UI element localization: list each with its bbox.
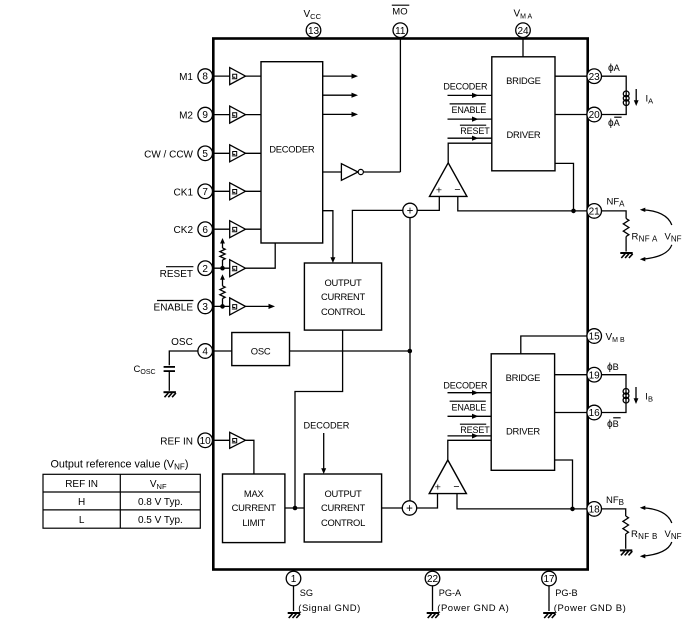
label REF IN <box>160 436 193 447</box>
wire pin 24 to bridge A <box>522 39 524 57</box>
resistor RNFA <box>602 211 629 252</box>
label VMB <box>606 332 625 344</box>
svg-text:11: 11 <box>395 26 406 37</box>
pin 15 VMB <box>587 329 602 344</box>
wire RESET buffer to decoder <box>246 243 276 268</box>
svg-text:15: 15 <box>589 332 601 343</box>
svg-text:22: 22 <box>427 574 439 585</box>
svg-text:ɸA: ɸA <box>608 118 621 129</box>
svg-text:+: + <box>435 482 441 494</box>
svg-text:VNF: VNF <box>150 479 167 491</box>
label NFB <box>606 495 624 507</box>
svg-text:−: − <box>454 184 460 196</box>
label RESET-bar bridge A <box>460 125 490 136</box>
wire OCC B to summing node B <box>382 507 402 509</box>
svg-text:OUTPUT: OUTPUT <box>324 488 362 499</box>
wire pin 1 to ground <box>293 570 295 612</box>
wire enable arrow bridge B <box>448 414 492 419</box>
pin 20 phiA-bar <box>587 107 602 122</box>
wire CK1 input <box>213 190 262 192</box>
schmitt buffer REF IN <box>230 432 246 448</box>
VNF arc A <box>640 208 672 262</box>
pin 22 PG-A <box>425 571 440 586</box>
schmitt buffer CK1 <box>230 183 246 200</box>
motor coil A <box>602 76 630 114</box>
svg-text:(Signal GND): (Signal GND) <box>298 603 361 614</box>
wire REF IN input <box>213 439 230 441</box>
wire summing A to comparator plus <box>417 196 439 210</box>
svg-text:VCC: VCC <box>304 9 322 21</box>
svg-text:ɸA: ɸA <box>608 63 621 74</box>
svg-text:MO: MO <box>392 7 407 18</box>
wire pin 21 stub <box>587 210 602 212</box>
svg-text:4: 4 <box>202 347 208 358</box>
wire OCC A to MCL node <box>295 330 343 508</box>
svg-text:+: + <box>407 205 414 217</box>
svg-text:CURRENT: CURRENT <box>321 291 366 302</box>
pull-up resistor on RESET <box>220 238 225 268</box>
pin 24 VMA <box>516 23 531 38</box>
pin 3 ENABLE-bar <box>198 299 213 314</box>
schmitt buffer ENABLE <box>230 298 246 315</box>
label VNF A <box>665 232 682 244</box>
wire comparator A to bridge A <box>448 143 492 163</box>
label RNFA <box>632 232 659 244</box>
svg-text:5: 5 <box>202 149 208 160</box>
label phiA-bar <box>608 117 622 129</box>
svg-text:RESET: RESET <box>460 425 490 435</box>
pin 13 VCC <box>306 23 321 38</box>
motor coil B <box>602 375 629 413</box>
label SG <box>300 588 313 598</box>
wire comparator B to bridge B <box>448 440 491 460</box>
svg-text:IA: IA <box>646 94 654 106</box>
comparator B <box>429 460 466 494</box>
svg-text:L: L <box>79 515 85 526</box>
wire enable arrow bridge A <box>448 117 492 122</box>
svg-text:PG-A: PG-A <box>439 588 462 598</box>
wire decoder to inverter <box>323 171 342 173</box>
svg-text:NFA: NFA <box>607 197 626 209</box>
svg-text:RESET: RESET <box>460 126 490 136</box>
label OSC pin <box>171 337 193 348</box>
pin 2 RESET-bar <box>198 261 213 276</box>
label phiA <box>608 63 621 74</box>
svg-text:NFB: NFB <box>606 495 624 507</box>
schmitt buffer M1 <box>230 68 246 85</box>
label VNF B <box>665 529 682 541</box>
label DECODER to bridge A <box>443 82 488 92</box>
svg-text:CW / CCW: CW / CCW <box>144 149 193 160</box>
svg-text:VNF: VNF <box>665 232 682 244</box>
junction MCL output <box>293 506 298 511</box>
label VMA <box>514 8 533 20</box>
label ENABLE-bar <box>154 301 194 314</box>
svg-text:DRIVER: DRIVER <box>506 129 540 140</box>
label MO-bar <box>392 5 410 17</box>
pin 9 M2 <box>198 107 213 122</box>
pull-up resistor on ENABLE <box>220 274 225 306</box>
svg-text:H: H <box>78 497 85 508</box>
wire bridge B to pin 15 <box>521 336 587 354</box>
schmitt buffer CK2 <box>230 221 246 238</box>
svg-text:RNF A: RNF A <box>632 232 659 244</box>
svg-text:SG: SG <box>300 588 313 598</box>
svg-text:IB: IB <box>645 392 653 404</box>
svg-text:(Power GND A): (Power GND A) <box>437 603 509 614</box>
output current control A block <box>304 263 381 330</box>
svg-text:3: 3 <box>202 302 208 313</box>
label CK2 <box>174 225 194 236</box>
wire comparator B minus to NFB <box>457 494 587 509</box>
svg-text:(Power GND B): (Power GND B) <box>554 603 626 614</box>
osc block <box>232 333 290 366</box>
svg-text:8: 8 <box>202 72 208 83</box>
wire bridge A to pin 23 <box>555 75 587 77</box>
wire decoder output arrow 1 <box>323 74 358 79</box>
svg-text:DECODER: DECODER <box>269 144 315 155</box>
svg-text:PG-B: PG-B <box>555 588 577 598</box>
svg-text:9: 9 <box>202 110 208 121</box>
output current control B block <box>304 474 381 542</box>
pin 7 CK1 <box>198 184 213 199</box>
svg-text:19: 19 <box>589 370 601 381</box>
wire REF IN to max current limit <box>246 440 254 474</box>
svg-text:VM A: VM A <box>514 8 533 20</box>
svg-text:DECODER: DECODER <box>304 421 350 431</box>
pin 6 CK2 <box>198 222 213 237</box>
svg-text:16: 16 <box>589 408 601 419</box>
label COSC <box>134 364 156 376</box>
bridge driver A block <box>492 57 555 171</box>
pin 19 phiB <box>587 367 602 382</box>
label PG-B <box>555 588 577 598</box>
wire reset arrow bridge B <box>448 433 492 438</box>
svg-text:OSC: OSC <box>251 346 271 357</box>
svg-text:BRIDGE: BRIDGE <box>506 75 540 86</box>
svg-text:CONTROL: CONTROL <box>321 306 365 317</box>
summing node B <box>402 501 416 515</box>
wire summing rail A to B <box>409 218 411 501</box>
svg-text:DECODER: DECODER <box>443 380 488 390</box>
wire pin 17 to ground <box>548 570 550 612</box>
junction NFB <box>570 507 575 512</box>
VNF arc B <box>640 506 672 559</box>
wire decoder arrow bridge B <box>448 390 492 395</box>
ground RNFA <box>620 253 632 258</box>
svg-text:20: 20 <box>589 110 601 121</box>
wire bridge B to pin 19 <box>555 374 587 376</box>
svg-text:ENABLE: ENABLE <box>452 403 487 413</box>
wire pin 18 stub <box>587 508 602 510</box>
wire pin 22 to ground <box>432 570 434 612</box>
junction OSC to rail <box>408 349 413 354</box>
wire M1 input <box>213 75 262 77</box>
svg-text:ENABLE: ENABLE <box>452 105 487 115</box>
svg-text:10: 10 <box>200 436 212 447</box>
svg-text:VNF: VNF <box>665 529 682 541</box>
wire RESET input <box>213 267 230 269</box>
ground RNFB <box>620 550 632 555</box>
label M2 <box>179 111 193 122</box>
svg-text:DECODER: DECODER <box>443 82 488 92</box>
junction ENABLE pull-up <box>220 304 225 309</box>
pin 5 CW / CCW <box>198 146 213 161</box>
pin 4 OSC <box>198 344 213 359</box>
label RNFB <box>631 529 658 541</box>
IC package boundary <box>213 39 587 570</box>
resistor RNFB <box>602 509 629 549</box>
svg-text:2: 2 <box>202 264 208 275</box>
svg-text:23: 23 <box>589 72 601 83</box>
wire ENABLE buffer out arrow <box>246 304 276 309</box>
capacitor COSC <box>164 367 175 391</box>
svg-text:18: 18 <box>589 505 601 516</box>
comparator A <box>430 163 467 197</box>
svg-text:M1: M1 <box>179 72 193 83</box>
label (Power GND A) <box>437 603 509 614</box>
ground PG-A <box>427 613 439 618</box>
pin 10 REF IN <box>198 433 213 448</box>
label phiB <box>607 362 619 373</box>
label CW / CCW <box>144 149 193 160</box>
junction NFA <box>571 209 576 214</box>
wire OCC A to summing node A <box>352 210 402 263</box>
svg-text:ɸB: ɸB <box>607 362 619 373</box>
wire comparator A minus to NFA <box>458 196 587 211</box>
wire CK2 input <box>213 228 262 230</box>
max current limit block <box>223 474 285 543</box>
svg-text:+: + <box>406 503 413 515</box>
svg-text:24: 24 <box>517 26 529 37</box>
wire decoder to OCC A <box>323 211 336 263</box>
svg-text:OSC: OSC <box>171 337 193 348</box>
svg-text:6: 6 <box>202 225 208 236</box>
label CK1 <box>174 187 194 198</box>
wire inverter to pin 11 MO <box>363 39 400 173</box>
svg-text:−: − <box>453 481 459 493</box>
svg-text:0.5 V Typ.: 0.5 V Typ. <box>138 515 183 526</box>
ground COSC <box>164 392 176 397</box>
svg-text:VM B: VM B <box>606 332 625 344</box>
svg-text:0.8 V Typ.: 0.8 V Typ. <box>138 497 183 508</box>
wire pin4 to OSC block <box>213 350 232 352</box>
pin 18 NFB <box>587 502 602 517</box>
svg-text:REF IN: REF IN <box>160 436 193 447</box>
table title <box>51 458 189 471</box>
svg-text:CK1: CK1 <box>174 187 194 198</box>
current arrow IB <box>634 387 639 404</box>
decoder block <box>261 62 323 243</box>
svg-text:MAX: MAX <box>244 488 265 499</box>
wire MCL to OCC B <box>285 507 304 509</box>
svg-text:1: 1 <box>291 574 297 585</box>
pin 1 SG <box>286 571 301 586</box>
svg-text:OUTPUT: OUTPUT <box>324 277 362 288</box>
svg-text:REF IN: REF IN <box>65 479 98 490</box>
svg-text:LIMIT: LIMIT <box>242 517 265 528</box>
svg-text:17: 17 <box>543 574 555 585</box>
ground PG-B <box>543 613 555 618</box>
svg-text:ɸB: ɸB <box>607 419 619 430</box>
label DECODER to bridge B <box>443 380 488 390</box>
svg-text:21: 21 <box>589 207 601 218</box>
svg-text:COSC: COSC <box>134 364 156 376</box>
wire decoder output arrow 2 <box>323 93 358 98</box>
junction RESET pull-up <box>220 266 225 271</box>
wire bridge A to pin 20 <box>555 114 587 116</box>
svg-text:+: + <box>436 184 442 196</box>
wire decoder output arrow 3 <box>323 112 358 117</box>
label VCC <box>304 9 322 21</box>
schmitt buffer CW / CCW <box>230 145 246 162</box>
label M1 <box>179 72 193 83</box>
inverter to MO <box>341 164 363 181</box>
label RESET-bar <box>160 267 194 280</box>
wire reset arrow bridge A <box>448 136 492 141</box>
svg-text:7: 7 <box>202 187 208 198</box>
label ENABLE-bar bridge B <box>450 401 487 412</box>
pin 11 MO-bar <box>393 23 408 38</box>
wire summing B to comparator plus <box>417 494 438 508</box>
svg-text:M2: M2 <box>179 111 193 122</box>
wire ENABLE input <box>213 305 230 307</box>
svg-text:CK2: CK2 <box>174 225 194 236</box>
current arrow IA <box>634 89 639 106</box>
label NFA <box>607 197 626 209</box>
wire M2 input <box>213 114 262 116</box>
label PG-A <box>439 588 462 598</box>
svg-text:CURRENT: CURRENT <box>232 502 277 513</box>
svg-text:Output reference value (VNF): Output reference value (VNF) <box>51 458 189 471</box>
wire bridge A sense to NFA <box>555 163 574 211</box>
pin 23 phiA <box>587 69 602 84</box>
svg-text:CURRENT: CURRENT <box>321 502 366 513</box>
wire bridge B sense to NFB <box>555 460 573 509</box>
bridge driver B block <box>491 354 554 471</box>
svg-text:DRIVER: DRIVER <box>506 426 540 437</box>
label DECODER to OCC B <box>304 421 350 431</box>
label IB <box>645 392 653 404</box>
svg-text:CONTROL: CONTROL <box>321 517 365 528</box>
schmitt buffer RESET <box>230 260 246 277</box>
label ENABLE-bar bridge A <box>450 104 487 115</box>
ground SG <box>288 613 300 618</box>
svg-text:RESET: RESET <box>160 269 193 280</box>
svg-text:13: 13 <box>308 26 320 37</box>
wire CW / CCW input <box>213 152 262 154</box>
wire decoder arrow bridge A <box>448 93 492 98</box>
pin 17 PG-B <box>542 571 557 586</box>
label (Power GND B) <box>554 603 626 614</box>
table output reference value <box>43 474 200 528</box>
label (Signal GND) <box>298 603 361 614</box>
pin 16 phiB-bar <box>587 405 602 420</box>
svg-text:BRIDGE: BRIDGE <box>506 372 540 383</box>
label RESET-bar bridge B <box>460 424 490 435</box>
summing node A <box>403 203 417 217</box>
wire OSC to capacitor <box>169 351 198 365</box>
wire bridge B to pin 16 <box>555 412 587 414</box>
label IA <box>646 94 654 106</box>
label phiB-bar <box>607 418 621 430</box>
wire decoder arrow to OCC B <box>321 433 326 474</box>
pin 8 M1 <box>198 69 213 84</box>
svg-text:ENABLE: ENABLE <box>154 303 194 314</box>
svg-text:RNF B: RNF B <box>631 529 658 541</box>
wire OSC output <box>290 350 410 352</box>
schmitt buffer M2 <box>230 106 246 123</box>
pin 21 NFA <box>587 204 602 219</box>
